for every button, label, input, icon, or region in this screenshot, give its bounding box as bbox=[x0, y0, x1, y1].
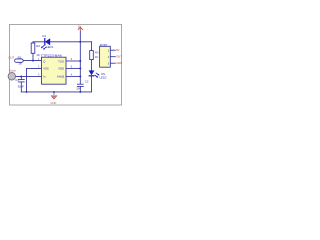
svg-text:5V: 5V bbox=[116, 48, 119, 52]
wire: VCC to R3 top bbox=[91, 42, 93, 51]
svg-text:5V: 5V bbox=[78, 24, 81, 28]
resistor R3 (LED2 series, right vertical) bbox=[90, 51, 94, 60]
svg-text:R2: R2 bbox=[36, 44, 40, 48]
resistor R2 (left vertical) bbox=[31, 43, 35, 53]
node VDD/VCC junction bbox=[79, 67, 81, 69]
node Q/R2 junction bbox=[32, 60, 34, 62]
wire: ground rail bbox=[21, 91, 91, 93]
node VCC/LED-wire junction bbox=[79, 41, 81, 43]
svg-text:TTP223-BA6: TTP223-BA6 bbox=[41, 53, 63, 57]
svg-text:D1: D1 bbox=[42, 34, 46, 38]
LED D2 emission arrows bbox=[95, 73, 99, 77]
svg-text:104: 104 bbox=[76, 87, 81, 91]
node GND rail junction bbox=[53, 91, 55, 93]
svg-text:R1: R1 bbox=[18, 55, 22, 59]
wire: VSS net pin2 to left and down to ground rail bbox=[27, 68, 42, 92]
svg-text:TOG: TOG bbox=[58, 59, 64, 63]
wire: C2 bottom lead to ground rail bbox=[79, 87, 81, 92]
touch pad hatch bbox=[9, 73, 15, 80]
wire: GND stem bbox=[53, 92, 55, 96]
wire: IC pin 4 AHLB stub bbox=[66, 75, 80, 77]
wire: R2 top stub bbox=[32, 42, 34, 43]
wire: port pin 1 stub bbox=[110, 49, 115, 51]
svg-text:GND: GND bbox=[116, 61, 122, 65]
svg-text:GND: GND bbox=[50, 101, 56, 105]
wire: C1 top lead bbox=[20, 76, 22, 79]
capacitor C1 plates bbox=[18, 80, 25, 82]
connector J1 PORT body bbox=[100, 46, 111, 67]
svg-text:VDD: VDD bbox=[58, 67, 64, 71]
wire: LED2 cathode to ground rail bbox=[91, 76, 93, 92]
svg-text:C1: C1 bbox=[15, 78, 19, 82]
wire: touch pad to IC pin 3 (In) bbox=[15, 75, 41, 77]
svg-text:C2: C2 bbox=[85, 79, 89, 83]
capacitor C2 plates bbox=[77, 84, 84, 86]
power port 5V symbol bbox=[78, 27, 83, 31]
svg-text:VSS: VSS bbox=[43, 67, 49, 71]
svg-text:30pF: 30pF bbox=[18, 85, 25, 89]
LED D2 (ON indicator) triangle pointing down bbox=[89, 70, 95, 75]
svg-text:Touch: Touch bbox=[9, 69, 17, 73]
node TOG/VCC junction bbox=[79, 60, 81, 62]
wire: IC pin 6 TOG stub bbox=[66, 60, 80, 62]
svg-text:1K: 1K bbox=[36, 53, 40, 57]
IC U1 TTP223-BA6 body bbox=[42, 57, 67, 84]
border frame bbox=[10, 25, 122, 106]
node C2/rail junction bbox=[79, 91, 81, 93]
resistor R1 (output series, oval) bbox=[15, 59, 24, 62]
wire: Q net from R1 oval to IC pin 1 bbox=[23, 60, 41, 62]
sheet background bbox=[0, 0, 130, 130]
LED D1 triangle bbox=[45, 38, 50, 45]
svg-text:1K: 1K bbox=[95, 55, 99, 59]
wire: port pin 3 stub bbox=[110, 62, 115, 64]
LED D2 cathode bar bbox=[89, 75, 95, 77]
svg-text:AHLB: AHLB bbox=[57, 75, 64, 79]
svg-text:1K: 1K bbox=[18, 62, 22, 66]
svg-text:PORT: PORT bbox=[100, 43, 108, 47]
wire: IC pin 5 VDD stub bbox=[66, 67, 80, 69]
wire: R3 bottom to LED2 anode bbox=[91, 60, 93, 71]
node AHLB/VCC junction bbox=[79, 75, 81, 77]
junction dots bbox=[20, 41, 81, 93]
wire: port pin 2 stub bbox=[110, 56, 115, 58]
LED D1 cathode bar bbox=[44, 38, 46, 46]
wire: R2 bottom to Q-net bbox=[32, 53, 34, 60]
touch pad TP1 bbox=[8, 73, 15, 80]
node VSS/rail junction bbox=[26, 91, 28, 93]
svg-text:OUT: OUT bbox=[116, 55, 122, 59]
wire: C1 bottom lead to ground rail bbox=[20, 82, 22, 92]
node pad/C1 junction bbox=[20, 75, 22, 77]
svg-text:LED1: LED1 bbox=[46, 45, 54, 49]
wire: VCC vertical from power symbol to C2 bbox=[79, 31, 81, 84]
ground symbol bbox=[51, 95, 57, 98]
wire: D1/LED top wire from R2 top to R3 top bbox=[33, 41, 92, 43]
LED D1 emission arrows bbox=[42, 45, 47, 49]
svg-text:LED2: LED2 bbox=[100, 75, 107, 79]
svg-text:OUT: OUT bbox=[8, 55, 14, 59]
